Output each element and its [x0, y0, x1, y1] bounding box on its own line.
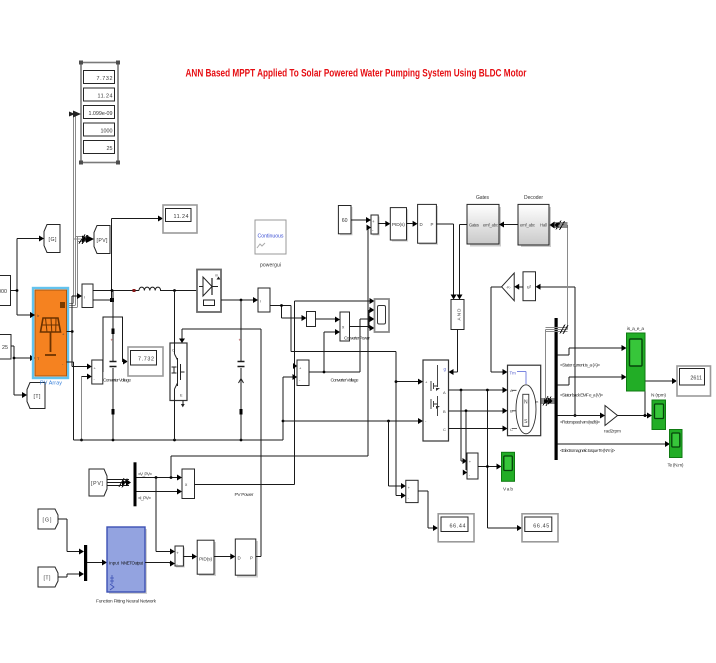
svg-text:emf_abc: emf_abc	[520, 223, 535, 228]
svg-text:PID(s): PID(s)	[199, 557, 212, 563]
svg-text:Decoder: Decoder	[524, 195, 543, 201]
goto tag [G] top	[44, 225, 60, 253]
wire Gates out down to AND	[457, 225, 468, 300]
svg-text:PID(s): PID(s)	[392, 222, 405, 228]
svg-text:[PV]: [PV]	[91, 481, 104, 487]
bus output 1: stator current to scope	[558, 345, 627, 368]
bus to bus selector 2	[107, 478, 131, 488]
svg-text:66.45: 66.45	[533, 524, 549, 530]
svg-text:Gates: Gates	[476, 195, 490, 201]
wire dc meter plus feed	[389, 421, 406, 489]
goto tag [PV] top	[94, 226, 110, 254]
display 66.45	[522, 514, 558, 542]
svg-text:+: +	[111, 338, 114, 343]
wire PID2 to sat2	[214, 554, 235, 560]
mux bar	[84, 545, 87, 581]
constant 25	[0, 335, 11, 360]
scope Te (N.m) green	[668, 430, 684, 469]
svg-text:[PV]: [PV]	[97, 238, 109, 244]
wire bus branch to [PV] goto	[74, 235, 95, 245]
Hall feedback bundle	[544, 221, 568, 403]
PV Array block	[30, 288, 68, 387]
wire V2 output to product and scope	[309, 316, 375, 373]
svg-text:B: B	[443, 409, 446, 414]
feedback V_PV up (to top sum)	[171, 456, 368, 478]
powergui block	[255, 220, 286, 269]
svg-text:2611: 2611	[690, 376, 702, 382]
product PV Power	[182, 469, 254, 499]
svg-text:<V_PV>: <V_PV>	[138, 472, 152, 477]
wire diode output to converter current meter	[221, 297, 258, 303]
saturation D-P block speed	[418, 204, 438, 244]
wire gate duty line into IGBT	[179, 329, 261, 343]
svg-text:i: i	[260, 299, 261, 304]
svg-text:A: A	[443, 390, 446, 395]
wire product out to scope	[350, 307, 375, 331]
from tag [T] bottom	[38, 567, 58, 587]
svg-text:Input: Input	[109, 561, 120, 566]
wire rotor speed to u2	[536, 284, 577, 417]
phase wires inverter to motor	[449, 387, 508, 432]
wire 25 to PV and [T]	[11, 346, 35, 398]
svg-text:Converter Voltage: Converter Voltage	[331, 378, 359, 384]
feedback wire into sum	[367, 225, 372, 457]
bus out V_PV	[137, 472, 183, 481]
svg-text:<I_PV>: <I_PV>	[138, 496, 151, 501]
positive rail to inverter	[291, 306, 423, 385]
main positive rail with inductor	[93, 289, 197, 292]
svg-text:u²: u²	[527, 285, 532, 291]
wire 1000 to PV and [G]	[11, 236, 45, 319]
wire 60 to sum	[351, 217, 371, 223]
scope N (rpm) green	[651, 393, 666, 430]
wire DC meter to display 66.44	[418, 491, 438, 531]
constant 1000	[0, 276, 11, 306]
svg-text:-K-: -K-	[506, 286, 512, 290]
display 11.24	[163, 205, 197, 233]
goto tag [T] top	[27, 383, 45, 409]
wire bus into display stack	[69, 111, 81, 235]
scope converter (white 4-input)	[375, 299, 390, 332]
sum2 block	[175, 546, 185, 568]
wire PV+ to current meter and V meter	[67, 293, 92, 370]
Function Fitting Neural Network block	[96, 527, 157, 605]
PID2 block	[197, 540, 216, 576]
Decoder block	[518, 195, 551, 247]
svg-text:[T]: [T]	[34, 394, 42, 400]
svg-text:25: 25	[2, 345, 8, 351]
bus output 2: back EMF to scope	[558, 374, 627, 398]
product Converter Power	[340, 312, 370, 342]
u2 block	[523, 272, 536, 301]
svg-text:1000: 1000	[0, 289, 7, 295]
saturation D-P block 2	[235, 539, 258, 578]
gain -K- (left pointing)	[502, 273, 515, 301]
wire AND out to inverter g	[449, 330, 458, 376]
voltage measurement converter 2	[293, 360, 359, 386]
wire Vab out to scope and display 66.45	[478, 389, 522, 531]
bus output 4: torque to scope	[558, 441, 670, 453]
display 66.44	[438, 514, 474, 542]
svg-text:+: +	[239, 338, 242, 343]
wire phase A tap to Vab	[461, 390, 467, 464]
diode block	[197, 270, 221, 313]
gain rad2rpm	[604, 406, 621, 435]
voltage measurement Vab	[467, 453, 478, 479]
motor m bus to bus selector	[541, 396, 555, 406]
converter current measurement	[258, 288, 270, 312]
bus selector 2 bar	[134, 462, 137, 506]
svg-text:Vab: Vab	[503, 487, 513, 493]
wire V meter minus from rail	[80, 374, 92, 442]
current measurement I_PV	[82, 284, 93, 308]
svg-text:Function Fitting Neural Networ: Function Fitting Neural Network	[96, 599, 157, 605]
bus output 3: rotor speed to rad2rpm	[558, 413, 605, 425]
wire inverter minus line	[283, 418, 423, 424]
wire rad2rpm to N scope and display	[618, 378, 678, 419]
wire Decoder to Gates	[499, 222, 518, 228]
svg-text:powergui: powergui	[260, 263, 281, 269]
wire sum2 to PID2	[183, 554, 197, 560]
svg-text:m: m	[215, 274, 218, 278]
svg-text:Te (N.m): Te (N.m)	[668, 463, 684, 469]
wire dc meter minus feed	[396, 382, 406, 499]
wire PID to saturation	[407, 221, 418, 227]
wire mux to NN	[87, 560, 107, 566]
wire PV power output	[195, 484, 295, 486]
svg-text:rad2rpm: rad2rpm	[604, 429, 621, 435]
long signal line / PV power riser	[293, 298, 375, 485]
svg-text:7.732: 7.732	[97, 76, 113, 82]
svg-text:D: D	[238, 556, 241, 561]
svg-text:P: P	[431, 222, 434, 227]
wire bus from PV m port up	[67, 234, 78, 308]
svg-text:Converter Power: Converter Power	[344, 336, 370, 342]
wire V meter output loop to display 7.732	[103, 317, 128, 372]
svg-text:N (rpm): N (rpm)	[651, 393, 666, 399]
svg-text:P: P	[250, 556, 253, 561]
svg-text:ANN Based MPPT Applied To Sola: ANN Based MPPT Applied To Solar Powered …	[186, 68, 528, 80]
svg-text:C: C	[510, 427, 513, 432]
svg-text:i: i	[84, 295, 85, 300]
svg-text:[G]: [G]	[43, 518, 53, 524]
wire P out down to AND	[436, 224, 456, 300]
svg-text:1000: 1000	[101, 129, 113, 135]
scope Vab green	[502, 452, 515, 492]
wire sum to PID	[378, 221, 390, 227]
gain block small	[307, 312, 316, 327]
inductor L	[139, 287, 161, 290]
svg-text:25: 25	[107, 146, 113, 152]
svg-text:[G]: [G]	[49, 237, 58, 243]
duty wire riser to IGBT gate line	[256, 329, 261, 557]
constant 60	[338, 206, 352, 236]
wire IGBT collector / emitter	[174, 291, 176, 441]
from tag [PV] bottom	[89, 469, 107, 496]
svg-text:+: +	[372, 219, 375, 224]
svg-text:<Stator current is_a (A)>: <Stator current is_a (A)>	[560, 363, 600, 368]
display stack (PV measurements)	[79, 61, 120, 165]
svg-text:is_a_e_a: is_a_e_a	[627, 326, 644, 332]
svg-text:1.099e-09: 1.099e-09	[89, 111, 113, 117]
svg-text:D: D	[420, 222, 423, 227]
svg-text:PV Array: PV Array	[40, 381, 62, 387]
svg-text:NNETOutput: NNETOutput	[121, 561, 144, 566]
from tag [G] bottom	[38, 509, 58, 529]
svg-text:PV Power: PV Power	[235, 492, 254, 498]
wire phase B tap to Vab	[463, 411, 467, 476]
AND block	[451, 300, 464, 330]
svg-text:Gates: Gates	[469, 223, 479, 228]
svg-text:+: +	[176, 551, 179, 556]
capacitor branch 1 (input cap)	[110, 291, 117, 441]
svg-text:Converter Voltage: Converter Voltage	[103, 378, 131, 384]
svg-text:<Rotor speed wm (rad/s)>: <Rotor speed wm (rad/s)>	[560, 420, 600, 425]
display 7.732	[128, 347, 163, 376]
bus out I_PV	[137, 489, 183, 501]
svg-text:<Stator back EMF e_a (V)>: <Stator back EMF e_a (V)>	[560, 393, 603, 398]
voltage measurement Converter Voltage (PV)	[92, 360, 132, 384]
svg-text:emf_abc: emf_abc	[483, 223, 498, 228]
bus selector bar (motor measurements)	[555, 318, 558, 460]
display 2611	[677, 366, 711, 396]
scope is_a e_a (green)	[627, 326, 646, 391]
negative rail	[74, 439, 283, 442]
voltage measurement DC link	[406, 480, 418, 502]
wire PV- down to negative rail	[67, 362, 74, 440]
svg-text:AND: AND	[457, 308, 462, 321]
wire u2 to gain to Tm	[491, 284, 523, 375]
feedback V_PV down to sum2	[156, 478, 175, 555]
IGBT block	[170, 343, 187, 407]
sum block speed loop	[371, 215, 380, 236]
Gates block	[467, 195, 501, 247]
wire V2 minus from negative corner	[282, 374, 297, 440]
svg-text:[T]: [T]	[44, 576, 52, 582]
svg-text:C: C	[443, 427, 446, 432]
svg-text:66.44: 66.44	[450, 524, 466, 530]
wire NN to sum2	[145, 561, 175, 567]
svg-text:Continuous: Continuous	[258, 234, 284, 240]
svg-text:<Electromagnetic torque Te (N*: <Electromagnetic torque Te (N*m)>	[560, 448, 615, 453]
PID speed	[390, 208, 408, 242]
svg-text:Tm: Tm	[510, 371, 517, 376]
svg-text:Hall: Hall	[540, 223, 547, 228]
svg-text:60: 60	[342, 218, 348, 224]
svg-text:11.24: 11.24	[98, 94, 113, 100]
wire current meter signal to display 11.24	[93, 216, 163, 303]
wires G,T to mux	[58, 519, 84, 577]
capacitor branch 2 (DC link cap)	[238, 300, 245, 440]
wire gain to product	[316, 317, 341, 323]
svg-text:7.732: 7.732	[138, 357, 154, 363]
wire converter current meter out	[270, 304, 307, 321]
svg-text:11.24: 11.24	[174, 214, 189, 220]
inverter block (3-phase bridge)	[423, 360, 449, 441]
BLDC motor block	[508, 365, 541, 436]
svg-text:N: N	[524, 400, 528, 406]
